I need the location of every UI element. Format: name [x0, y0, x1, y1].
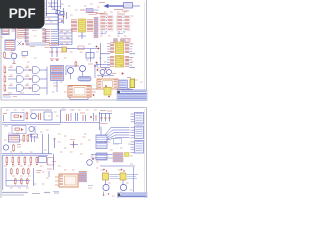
svg-text:PDF: PDF [9, 6, 36, 21]
